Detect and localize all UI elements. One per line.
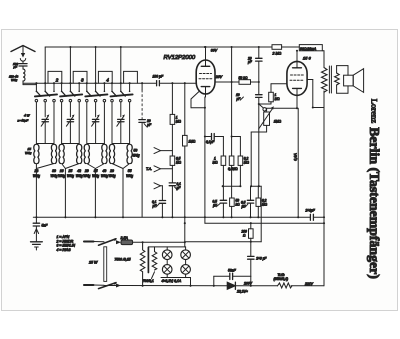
svg-text:1MΩ: 1MΩ: [274, 120, 282, 124]
svg-text:Wdg: Wdg: [92, 174, 99, 178]
svg-text:0,6A: 0,6A: [293, 153, 297, 161]
resistor 1 MOhm (v1): [213, 156, 226, 165]
svg-text:2 MΩ: 2 MΩ: [272, 52, 282, 56]
svg-text:0,3MΩ: 0,3MΩ: [228, 167, 238, 171]
svg-text:Wdg: Wdg: [51, 174, 58, 178]
coils group 4: [109, 145, 132, 164]
svg-text:50: 50: [134, 149, 138, 153]
label 15 Wdg (left of first coil): [25, 147, 32, 155]
tube U2 internals: [290, 61, 304, 95]
op: tube RV12P2000 U1: [196, 60, 215, 94]
capacitor 0.5uF (v1): [213, 200, 227, 208]
svg-text:pF: pF: [13, 65, 18, 69]
resistor 1 MOhm (tube2 grid): [269, 92, 280, 102]
svg-text:20V: 20V: [215, 75, 223, 79]
svg-text:50nF: 50nF: [228, 268, 237, 272]
wire U2 top to bus: [296, 51, 298, 62]
svg-text:25 W: 25 W: [88, 261, 98, 265]
wire v3 jog: [232, 137, 241, 157]
wire cap chain x258.8: [258, 47, 260, 186]
coils group 3: [84, 145, 107, 164]
coil 110-43 Wdg (antenna): [9, 69, 25, 82]
potentiometer 1 MOhm: [259, 104, 282, 129]
wire v1 x223.4: [222, 137, 224, 157]
svg-text:Wdg: Wdg: [83, 174, 90, 178]
resistor 0.2 MOhm (v4): [256, 198, 268, 207]
capacitor 0.5uF (v3): [241, 186, 254, 208]
svg-text:Berlin (Tastenempfänger): Berlin (Tastenempfänger): [366, 127, 382, 279]
fuse 2.5A: [120, 236, 133, 245]
svg-text:4 W: 4 W: [24, 113, 31, 117]
wire v2 lower: [231, 137, 233, 157]
trimmer capacitor group 4: [112, 114, 130, 143]
coil labels group 3: [83, 169, 108, 178]
input arrow 2 (T.A.): [146, 166, 172, 172]
wire U1 anode to top bus: [205, 47, 207, 60]
resistor 700/0.1: [143, 247, 157, 283]
svg-text:Wdg: Wdg: [109, 174, 116, 178]
svg-text:MΩ: MΩ: [176, 120, 182, 124]
svg-text:Wdg: Wdg: [133, 154, 140, 158]
lamp frame: [148, 247, 190, 286]
svg-text:29: 29: [109, 169, 114, 173]
wire U2 anode loop: [307, 80, 324, 108]
lamp 1: [162, 250, 172, 260]
svg-text:MΩ: MΩ: [176, 161, 182, 165]
resistor 200 Ohm + filter chain: [241, 223, 254, 256]
mains switch lower lever: [99, 283, 117, 289]
transformer secondary winding: [335, 73, 340, 85]
capacitor 2x3uF (second): [248, 256, 268, 276]
svg-text:0,1µF: 0,1µF: [206, 140, 215, 144]
switch group 1 wires down: [36, 102, 54, 145]
pushbutton bracket 1: [48, 71, 62, 83]
wire bottom bus y285.8: [104, 285, 324, 287]
svg-text:Ω: Ω: [243, 234, 246, 238]
resistor 1 MOhm (x172.4 upper): [170, 114, 181, 124]
svg-text:35: 35: [94, 169, 98, 173]
wire v3 to jog1: [223, 165, 241, 186]
svg-text:(6500/0,1): (6500/0,1): [274, 277, 289, 281]
wire v2 to box: [231, 165, 233, 198]
svg-text:15 6: 15 6: [303, 56, 312, 61]
svg-text:25: 25: [68, 169, 73, 173]
svg-text:39: 39: [52, 169, 56, 173]
coils group 2: [59, 145, 82, 164]
svg-text:700/0,1: 700/0,1: [143, 279, 154, 283]
resistor 50 kOhm (v2 lower box): [230, 198, 240, 207]
lamp 4: [181, 265, 191, 275]
coil labels group 1: [33, 169, 58, 178]
resistor 0.3 MOhm (v2): [228, 156, 238, 171]
svg-text:T.A.: T.A.: [146, 167, 152, 171]
svg-text:3: 3: [81, 78, 84, 83]
capacitor 100pF (coupling, on grid bus): [153, 75, 164, 86]
resistor 50 kOhm: [239, 76, 251, 84]
switch pivot dots: [114, 238, 116, 284]
pushbutton bracket 3: [98, 71, 112, 83]
coil labels group 2: [58, 169, 83, 178]
coil merge wires group 3: [87, 164, 105, 218]
tube U1 internals: [191, 60, 212, 108]
svg-text:4×0,2V; 0,1A: 4×0,2V; 0,1A: [162, 279, 182, 283]
svg-text:MΩ: MΩ: [275, 97, 281, 101]
ground: [31, 242, 43, 250]
wire U1 cathode down: [204, 97, 206, 223]
capacitor 0.1uF (arrow3): [152, 200, 166, 217]
resistor 1 MOhm (x184.8): [183, 135, 196, 146]
wire top bus drop 4: [120, 47, 122, 83]
svg-text:16: 16: [60, 169, 64, 173]
diode rectifier: [227, 282, 235, 289]
wire x172.4: [171, 83, 173, 217]
wire cap2 to bus: [250, 203, 252, 217]
svg-text:22,2V≈: 22,2V≈: [236, 290, 248, 294]
resistor 2 MOhm (on top bus): [272, 45, 282, 56]
wire AF chain jogs: [251, 186, 261, 242]
capacitor 5nF (ground leg): [33, 217, 48, 227]
wire U1 plate to 50k: [215, 81, 239, 83]
wire pot bottom to AF line: [251, 125, 266, 186]
svg-text:Wdg: Wdg: [11, 78, 18, 82]
svg-text:2+3 µF: 2+3 µF: [255, 257, 267, 261]
wire v2 to bus: [231, 206, 233, 217]
transformer core: [329, 66, 331, 93]
pushbutton bracket 2: [73, 71, 87, 83]
svg-text:Wdg: Wdg: [76, 174, 83, 178]
wire U2 cathode to pot: [267, 95, 297, 111]
wire x184.8 heater feed: [184, 83, 186, 247]
capacitor 10pF: [236, 93, 263, 101]
wire grid resistor to tube2: [259, 84, 287, 104]
wire bus A y217.3: [33, 216, 324, 218]
capacitor 0.1uF (x172.4): [169, 182, 181, 190]
wire bus B y223.2: [205, 222, 324, 224]
svg-text:4: 4: [106, 78, 109, 83]
switch group 3 wires down: [87, 102, 105, 145]
mains plug terminals: [84, 242, 94, 286]
wire x142 with coupling cap: [141, 83, 143, 217]
svg-text:MΩ: MΩ: [244, 161, 250, 165]
wire v1 to cap: [222, 165, 224, 199]
wire secondary to speaker: [337, 66, 348, 94]
coil merge wires group 4: [112, 164, 130, 218]
tube U2: [287, 61, 307, 95]
svg-text:Wdg: Wdg: [101, 174, 108, 178]
label n=43pF (left of trimmers): [18, 113, 31, 122]
svg-text:MΩ: MΩ: [262, 203, 268, 207]
svg-text:7500 /0,15: 7500 /0,15: [115, 258, 131, 262]
wire antenna to switch bus: [22, 81, 24, 85]
wire primary bottom: [323, 91, 325, 108]
switch group 1 contacts: [35, 83, 57, 102]
wire top bus drop 2: [69, 47, 71, 83]
svg-text:42: 42: [77, 169, 81, 173]
pushbutton bracket 4: [124, 71, 138, 83]
wire tap bar top: [147, 246, 149, 249]
wire B+ rail right x324: [323, 108, 325, 286]
resistor 0.2 MOhm (v3): [238, 156, 249, 165]
input arrow 3: [154, 183, 162, 200]
wire transformer primary top: [322, 50, 324, 52]
wire plug stubs: [94, 242, 105, 286]
svg-text:Wdg: Wdg: [25, 151, 32, 155]
svg-text:1MΩ: 1MΩ: [189, 140, 196, 144]
svg-text:221V: 221V: [304, 282, 314, 286]
svg-text:5nF: 5nF: [42, 224, 49, 228]
speaker: [344, 69, 364, 93]
switch group 2 contacts: [60, 83, 82, 102]
svg-text:kΩ: kΩ: [236, 203, 241, 207]
wire heater bus y242.3: [133, 241, 185, 243]
svg-text:Wdg: Wdg: [33, 174, 40, 178]
svg-text:MΩ: MΩ: [213, 161, 219, 165]
wire top bus drop 3: [95, 47, 97, 83]
svg-text:2+3µF: 2+3µF: [305, 209, 316, 213]
svg-text:30V: 30V: [211, 49, 218, 53]
svg-text:4 = RIAS: 4 = RIAS: [57, 248, 72, 252]
wire cathode side jog: [191, 107, 205, 109]
svg-text:Lorenz: Lorenz: [370, 99, 380, 124]
svg-text:100 pF: 100 pF: [153, 75, 164, 79]
switch group 4 wires down: [112, 102, 130, 145]
svg-text:2,5A: 2,5A: [120, 236, 129, 240]
resistor tap bar: [147, 248, 149, 273]
trimmer capacitor group 2: [62, 114, 80, 143]
wire v4 to bus: [257, 206, 259, 217]
junction dots on grid bus: [35, 82, 186, 84]
wire grid bus y83: [23, 82, 156, 84]
coil merge wires group 1: [36, 164, 54, 218]
svg-text:Wdg: Wdg: [58, 174, 65, 178]
svg-text:Wdg: Wdg: [67, 174, 74, 178]
wire v1 to bus: [222, 203, 224, 217]
svg-text:23: 23: [34, 169, 39, 173]
svg-text:55: 55: [128, 169, 132, 173]
wire heater 0.6A down: [293, 108, 298, 217]
wire 50k to cap chain: [251, 81, 259, 83]
capacitor 20pF (x142): [139, 119, 152, 127]
input arrow 1: [154, 148, 172, 154]
svg-text:49: 49: [103, 169, 107, 173]
wire y241.7 to AF chain: [185, 241, 261, 243]
resistor 7500/0.15: [115, 242, 145, 285]
svg-text:n=43pF: n=43pF: [18, 118, 30, 122]
resistor 25W (ballast link): [88, 247, 107, 282]
trimmer capacitor group 3: [87, 114, 105, 143]
lamp 3: [162, 265, 172, 275]
svg-text:RV12P2000: RV12P2000: [164, 55, 196, 61]
lamp 2: [181, 250, 191, 260]
arrowheads on mains wires: [116, 240, 121, 287]
svg-text:50 kΩ: 50 kΩ: [239, 76, 248, 80]
capacitor 50nF bridge: [214, 268, 251, 286]
resistor 0.5 MOhm: [170, 156, 182, 165]
mains switch upper lever: [99, 239, 117, 245]
capacitor 20pF: [247, 57, 262, 65]
svg-text:Wdg: Wdg: [126, 174, 133, 178]
transformer primary winding: [322, 68, 328, 93]
capacitor 2x3uF (on bus A): [305, 209, 316, 221]
coil merge wires group 2: [62, 164, 80, 218]
svg-text:2: 2: [55, 78, 59, 83]
switch group 2 wires down: [62, 102, 80, 145]
switch group 3 contacts: [85, 83, 107, 102]
wire top bus drop 1: [44, 47, 46, 83]
switch group 4 contacts: [111, 83, 133, 102]
coil labels group 4: [109, 169, 134, 178]
resistor 6500/0.1 (bottom): [274, 273, 293, 288]
chassis arrow: [34, 226, 38, 242]
svg-text:29: 29: [84, 169, 89, 173]
svg-text:pF: pF: [146, 123, 152, 127]
capacitor 100pF (antenna): [13, 61, 28, 69]
wire screen feed x231: [231, 47, 233, 137]
coils group 1: [34, 145, 57, 164]
capacitor 0.1uF (cathode): [205, 134, 224, 145]
antenna: [11, 46, 35, 62]
trimmer capacitor group 1: [36, 114, 54, 143]
junction dots misc: [35, 46, 325, 287]
wire top B+ bus y47: [45, 46, 272, 48]
svg-text:90Ω;26mA: 90Ω;26mA: [300, 47, 317, 51]
svg-text:pF: pF: [247, 60, 253, 64]
legend station list: [56, 235, 76, 252]
label 90 Ohm 26mA (boxed): [299, 45, 322, 51]
